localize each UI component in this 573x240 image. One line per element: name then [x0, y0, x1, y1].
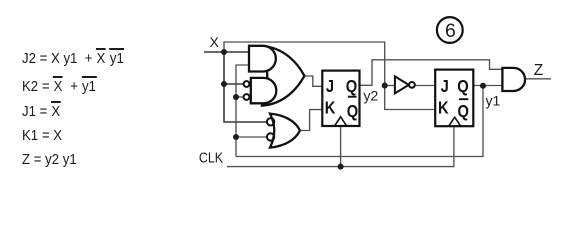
- svg-text:X: X: [210, 34, 220, 50]
- svg-text:K: K: [438, 98, 449, 117]
- svg-text:6: 6: [445, 20, 456, 42]
- svg-text:Q: Q: [457, 77, 468, 96]
- svg-text:K: K: [325, 98, 336, 117]
- svg-text:Q: Q: [347, 102, 358, 121]
- svg-text:Q: Q: [458, 102, 469, 121]
- svg-text:y2: y2: [364, 88, 379, 104]
- svg-text:Q: Q: [346, 77, 357, 96]
- svg-text:Z: Z: [534, 62, 543, 79]
- svg-text:y1: y1: [486, 93, 501, 109]
- svg-text:J: J: [441, 77, 449, 96]
- svg-text:J: J: [326, 77, 334, 96]
- svg-text:CLK: CLK: [199, 149, 224, 165]
